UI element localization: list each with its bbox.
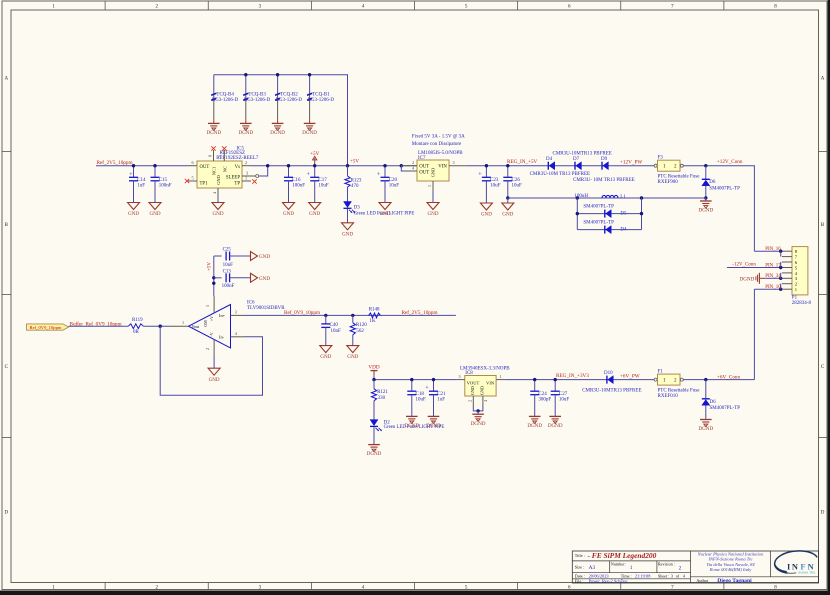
svg-text:C23: C23 (490, 178, 499, 183)
svg-text:GND: GND (128, 211, 139, 217)
svg-text:Vs: Vs (235, 165, 240, 170)
svg-text:SM4007PL-TP: SM4007PL-TP (583, 221, 614, 226)
ferrite bead TCQ-B2 (270, 73, 302, 136)
svg-text:C14: C14 (137, 178, 146, 183)
svg-text:TCQ-B4: TCQ-B4 (216, 93, 234, 98)
svg-text:BG3-1206-D: BG3-1206-D (212, 98, 239, 103)
capacitor C25 (214, 248, 271, 268)
svg-text:D6: D6 (709, 180, 716, 185)
ground GND IC7 (427, 203, 439, 218)
capacitor C16 (283, 164, 306, 217)
svg-text:OUT: OUT (419, 165, 429, 170)
svg-text:D10: D10 (604, 371, 613, 376)
net label Ref_0V9_10ppm out (284, 309, 320, 316)
fuse F1 (654, 370, 700, 400)
svg-text:Revision :: Revision : (658, 562, 675, 567)
svg-text:330: 330 (378, 396, 386, 401)
svg-text:300pF: 300pF (538, 398, 551, 403)
regulator IC7 LM1085IS-5.0 body (417, 151, 463, 181)
svg-text:-V: -V (209, 332, 214, 336)
svg-text:Montare con Dissipatore: Montare con Dissipatore (412, 142, 462, 147)
svg-text:GND: GND (259, 276, 270, 282)
svg-text:DGND: DGND (238, 130, 253, 136)
svg-text:GND: GND (347, 354, 358, 360)
capacitor C17 (307, 164, 329, 217)
svg-text:Diego Tagnani: Diego Tagnani (717, 578, 752, 584)
svg-text:BG3-1206-D: BG3-1206-D (244, 98, 271, 103)
svg-text:1uF: 1uF (437, 398, 445, 403)
svg-text:GND: GND (502, 212, 513, 218)
svg-text:TCQ-B2: TCQ-B2 (280, 93, 298, 98)
ground DGND IC8 (471, 414, 486, 427)
svg-text:DGND: DGND (698, 426, 713, 432)
svg-text:DGND: DGND (548, 423, 563, 429)
pin 3 SLEEP of IC5 (242, 171, 259, 178)
svg-text:GND: GND (431, 168, 436, 178)
svg-text:C20: C20 (389, 178, 398, 183)
svg-text:282834-8: 282834-8 (792, 301, 812, 306)
capacitor C18 (404, 378, 426, 429)
wire feedback loop (160, 326, 262, 395)
svg-text:TCQ-B3: TCQ-B3 (248, 93, 266, 98)
svg-text:PIN_17: PIN_17 (765, 263, 781, 268)
svg-text:3: 3 (453, 160, 455, 165)
svg-text:TCQ-B1: TCQ-B1 (312, 93, 330, 98)
wire D5 branch (576, 198, 644, 230)
wire port to R119 (69, 325, 129, 327)
wire SLEEP to Vs (259, 166, 268, 176)
ferrite bead TCQ-B3 (238, 73, 270, 136)
svg-text:Ref_2V5_10ppm: Ref_2V5_10ppm (97, 159, 133, 166)
svg-text:C25: C25 (223, 248, 232, 253)
LED D2 (370, 401, 444, 445)
net label +12V_PW (620, 160, 642, 166)
svg-text:10uF: 10uF (416, 398, 427, 403)
svg-text:1uF: 1uF (137, 184, 145, 189)
svg-text:5: 5 (205, 305, 210, 307)
svg-text:5: 5 (192, 176, 194, 181)
svg-text:PIN_10: PIN_10 (765, 285, 781, 290)
svg-text:1: 1 (182, 320, 184, 325)
svg-text:A: A (4, 77, 8, 82)
net label PIN_34 (765, 274, 781, 279)
svg-text:+6V_PW: +6V_PW (620, 374, 640, 380)
svg-text:NC1: NC1 (212, 167, 217, 175)
pin 4 OUT2 of IC7 (401, 166, 417, 171)
power port DGND at P1 (740, 273, 781, 284)
svg-text:REG_IN_+5V: REG_IN_+5V (507, 159, 538, 165)
junction DGND 12V (704, 196, 707, 199)
svg-text:470: 470 (351, 184, 359, 189)
svg-text:2: 2 (245, 160, 247, 165)
svg-text:GND: GND (479, 386, 484, 395)
junction L1 left (576, 196, 579, 199)
svg-text:+5V: +5V (350, 160, 359, 165)
svg-text:GND: GND (259, 254, 270, 260)
ferrite bead TCQ-B1 (302, 73, 334, 136)
wire F1 to +6V_Conn (683, 379, 754, 381)
wire PIN_10 (754, 284, 782, 380)
svg-text:100nF: 100nF (222, 284, 235, 289)
svg-text:C13: C13 (223, 270, 232, 275)
svg-text:PIN_16: PIN_16 (765, 247, 781, 252)
capacitor C40 (320, 314, 341, 361)
pin 2 Vs of IC5 (242, 160, 251, 166)
svg-text:GND: GND (216, 175, 221, 185)
diode D10 (604, 371, 613, 384)
INFN logo (775, 551, 817, 575)
svg-text:+5V: +5V (208, 262, 213, 271)
resistor R148 (369, 308, 381, 324)
pin 2 OUT of IC7 (401, 160, 417, 166)
diode D9 value (573, 178, 635, 183)
svg-text:F1: F1 (658, 370, 664, 375)
svg-text:D4: D4 (620, 228, 627, 233)
svg-text:R148: R148 (369, 308, 380, 313)
fuse F3 (654, 156, 700, 186)
svg-text:Fixed 5V 3A - 1.5V @ 3A: Fixed 5V 3A - 1.5V @ 3A (412, 135, 465, 140)
svg-text:C26: C26 (512, 178, 521, 183)
wire +5V rail (251, 165, 417, 167)
net label REG_IN_+5V (507, 159, 538, 165)
capacitor C24 (527, 378, 551, 429)
svg-text:GND: GND (427, 211, 438, 217)
capacitor C26 (502, 164, 522, 218)
resistor R121 (371, 380, 388, 401)
capacitor C15 (149, 164, 172, 217)
svg-text:DGND: DGND (740, 276, 755, 282)
capacitor C14 (128, 164, 147, 217)
svg-text:+: + (129, 172, 133, 178)
junction R123 node (346, 164, 349, 167)
pin 1 VIN of IC8 (496, 374, 505, 380)
svg-text:Vout: Vout (192, 324, 201, 329)
diode D9 (601, 157, 608, 170)
svg-text:Ref_2V5_10ppm: Ref_2V5_10ppm (402, 309, 438, 316)
svg-text:DGND: DGND (367, 451, 382, 457)
svg-text:Title :: Title : (575, 553, 585, 558)
svg-text:INFN-Sezione Roma Tre: INFN-Sezione Roma Tre (707, 557, 752, 562)
regulator IC8 LM3940 body (460, 366, 510, 396)
svg-text:IC8: IC8 (465, 371, 473, 376)
svg-text:GND: GND (149, 211, 160, 217)
svg-text:DGND: DGND (302, 130, 317, 136)
wire SLEEP stub (258, 175, 260, 177)
svg-text:TLV9001SIDBVR: TLV9001SIDBVR (247, 306, 285, 311)
pin 5 TP1 of IC5 (185, 176, 197, 184)
net label +6V_PW (620, 374, 640, 380)
wire DGND bead rail (214, 75, 348, 166)
net label PIN_17 (765, 263, 781, 268)
svg-text:L1: L1 (620, 195, 626, 200)
diode D4 value (530, 172, 590, 177)
svg-text:8: 8 (208, 155, 213, 157)
power port VDD (368, 365, 379, 375)
svg-text:C21: C21 (437, 392, 446, 397)
svg-text:GND: GND (470, 386, 475, 395)
net label +6V_Conn (717, 374, 741, 380)
svg-text:SLEEP: SLEEP (226, 176, 240, 181)
connector P1 282834-8 (782, 247, 812, 307)
svg-text:P1: P1 (792, 296, 798, 301)
svg-text:of: of (676, 574, 680, 579)
wire PIN_34 (779, 273, 782, 280)
svg-text:100uH: 100uH (574, 194, 588, 199)
svg-text:- FE SiPM Legend200: - FE SiPM Legend200 (588, 551, 657, 560)
svg-text:OUT: OUT (419, 170, 429, 175)
svg-text:10uF: 10uF (389, 184, 400, 189)
port Ref_0V9_10ppm (27, 324, 69, 330)
svg-text:VDD: VDD (368, 365, 379, 371)
resistor R120 (347, 314, 367, 361)
svg-text:TP1: TP1 (200, 181, 209, 186)
svg-text:1K: 1K (370, 319, 377, 324)
pin 7 NC of IC5 (219, 146, 227, 161)
svg-text:+: + (425, 386, 429, 392)
svg-text:10nF: 10nF (331, 329, 342, 334)
svg-text:ROMA TRE: ROMA TRE (798, 571, 815, 575)
svg-text:OUT: OUT (200, 165, 210, 170)
svg-text:Sheet :: Sheet : (658, 574, 670, 579)
net label PIN_10 (765, 285, 781, 290)
svg-text:DGND: DGND (404, 423, 419, 429)
svg-text:10uF: 10uF (490, 184, 501, 189)
junction SLEEP/Vs (266, 164, 269, 167)
svg-text:3: 3 (459, 374, 461, 379)
svg-text:R120: R120 (356, 323, 367, 328)
svg-text:CMR3U-10MTR13 PBFREE: CMR3U-10MTR13 PBFREE (582, 389, 641, 394)
svg-text:Nuclear Physics National Insti: Nuclear Physics National Institution (697, 551, 765, 556)
svg-text:10uF: 10uF (559, 398, 570, 403)
svg-text:CMR3U-10M TR13 PBFREE: CMR3U-10M TR13 PBFREE (530, 172, 590, 177)
svg-text:2: 2 (467, 400, 472, 402)
svg-text:C24: C24 (538, 392, 547, 397)
svg-text:Author: Author (696, 578, 708, 583)
svg-text:Size :: Size : (575, 565, 584, 570)
svg-text:10nF: 10nF (223, 263, 234, 268)
svg-text:BG3-1206-D: BG3-1206-D (308, 98, 335, 103)
diode D6 (6V clamp) (702, 380, 740, 419)
pins GND of IC8 (467, 396, 487, 414)
svg-text:D4: D4 (546, 157, 553, 162)
inductor L1 (574, 194, 626, 200)
ground GND D3 (342, 223, 354, 238)
svg-text:DGND: DGND (471, 421, 486, 427)
note fixed 5V (412, 135, 465, 147)
svg-text:10uF: 10uF (318, 184, 329, 189)
net label +5V vertical (208, 262, 213, 271)
svg-text:100nF: 100nF (159, 184, 172, 189)
diode D5 (583, 205, 627, 218)
svg-text:1: 1 (245, 176, 247, 181)
svg-text:A: A (821, 77, 825, 82)
pin 8 NC1 of IC5 (208, 146, 216, 161)
svg-text:21:19:08: 21:19:08 (635, 574, 651, 579)
diode D10 value (582, 389, 641, 394)
svg-text:RXEF010: RXEF010 (658, 394, 679, 399)
svg-text:D5: D5 (620, 212, 627, 217)
svg-text:DGND: DGND (426, 423, 441, 429)
svg-text:SM4007PL-TP: SM4007PL-TP (710, 406, 741, 411)
svg-text:DGND: DGND (527, 423, 542, 429)
svg-text:GND: GND (283, 211, 294, 217)
svg-text:IC7: IC7 (418, 156, 426, 161)
capacitor C20 (377, 164, 399, 217)
svg-text:GND: GND (309, 211, 320, 217)
svg-text:TP: TP (234, 181, 240, 186)
diode D4 (parallel) (583, 221, 627, 234)
svg-text:CMR3U-10MTR13 PBFREE: CMR3U-10MTR13 PBFREE (553, 152, 612, 157)
svg-text:I: I (787, 562, 790, 571)
svg-text:2: 2 (679, 566, 682, 572)
svg-text:D6: D6 (710, 400, 717, 405)
svg-text:OM: OM (203, 320, 208, 327)
diode D4 (546, 157, 555, 170)
wire REG_IN_+5V rail (466, 165, 654, 167)
svg-text:File :: File : (575, 578, 584, 583)
svg-text:NC: NC (222, 166, 227, 172)
svg-text:+12V_PW: +12V_PW (620, 160, 642, 166)
svg-text:D9: D9 (601, 157, 608, 162)
LED D3 (344, 187, 415, 223)
title block (572, 551, 818, 584)
svg-text:Ref_0V9_10ppm: Ref_0V9_10ppm (30, 325, 62, 330)
net label PIN_16 (765, 247, 781, 252)
wire -12V_Conn (727, 262, 783, 269)
svg-text:3: 3 (235, 309, 237, 314)
net label +5V (350, 160, 359, 165)
svg-text:D: D (4, 511, 8, 516)
ground GND IC5 (212, 203, 224, 218)
svg-text:R121: R121 (377, 390, 388, 395)
junction D6 top (704, 164, 707, 167)
diode D7 value (553, 152, 612, 157)
wire PIN_16 (754, 250, 782, 257)
pin 5 +V of IC6 (205, 296, 214, 313)
capacitor C23 (478, 164, 500, 218)
svg-text:10uF: 10uF (512, 184, 523, 189)
svg-text:PTC Resettable Fuse: PTC Resettable Fuse (658, 175, 701, 180)
ground GND IC6 (208, 368, 220, 383)
svg-text:Power_Rev-2.SchDoc: Power_Rev-2.SchDoc (589, 578, 628, 583)
capacitor C21 (425, 378, 446, 429)
svg-text:R123: R123 (351, 178, 362, 183)
svg-text:1: 1 (427, 185, 432, 187)
svg-text:+12V_Conn: +12V_Conn (717, 159, 743, 165)
pin 4 In- of IC6 (231, 331, 246, 337)
svg-text:2: 2 (205, 348, 210, 350)
ground DGND 12V clamp (698, 198, 713, 214)
svg-text:DGND: DGND (698, 208, 713, 214)
net label +12V_Conn (717, 159, 743, 165)
svg-text:0R: 0R (133, 330, 140, 335)
svg-text:DGND: DGND (270, 130, 285, 136)
svg-text:VOUT: VOUT (467, 381, 480, 386)
junction L1 right (640, 196, 643, 199)
svg-text:1: 1 (500, 374, 502, 379)
pin 1 Vout of IC6 (170, 320, 189, 326)
svg-text:SM4007PL-TP: SM4007PL-TP (583, 205, 614, 210)
svg-text:CMR3U- 10M TR13 PBFREE: CMR3U- 10M TR13 PBFREE (573, 178, 635, 183)
svg-text:+5V: +5V (310, 151, 320, 157)
junction IC7 OUT (400, 164, 403, 167)
svg-text:100nF: 100nF (292, 184, 305, 189)
pin 6 OUT of IC5 (188, 160, 197, 166)
diode D6 (12V clamp) (702, 166, 740, 198)
svg-text:6: 6 (192, 160, 194, 165)
op-amp IC6 TLV9001SIDBVR (189, 300, 286, 348)
svg-text:2: 2 (412, 160, 414, 165)
svg-text:Ref_0V9_10ppm: Ref_0V9_10ppm (284, 309, 320, 316)
wire REG_IN_+3V3 rail (505, 379, 654, 381)
ground DGND 6V clamp (698, 420, 713, 433)
svg-text:GND: GND (320, 354, 331, 360)
svg-text:Rome 00146(RM) Italy: Rome 00146(RM) Italy (709, 567, 752, 572)
svg-text:REG_IN_+3V3: REG_IN_+3V3 (556, 373, 589, 379)
svg-text:RXEF900: RXEF900 (658, 180, 679, 185)
svg-text:R119: R119 (132, 318, 143, 323)
pin 2 -V of IC6 (205, 339, 214, 356)
svg-text:IC6: IC6 (247, 300, 255, 305)
wire Ref_0V9_10ppm out (245, 314, 456, 316)
svg-text:GND: GND (212, 211, 223, 217)
svg-text:DGND: DGND (206, 130, 221, 136)
wire IC7 GND (432, 191, 434, 203)
pin 3 In+ of IC6 (231, 309, 246, 315)
svg-text:D7: D7 (573, 157, 580, 162)
svg-text:D3: D3 (354, 205, 361, 210)
svg-text:GND: GND (481, 212, 492, 218)
net label REG_IN_+3V3 (556, 373, 589, 379)
junction D6 bottom (704, 378, 707, 381)
svg-text:7: 7 (219, 155, 224, 157)
pin 4 GND of IC5 (212, 188, 218, 198)
svg-text:VIN: VIN (438, 165, 447, 170)
svg-text:C16: C16 (292, 178, 301, 183)
svg-text:GND: GND (379, 211, 390, 217)
svg-text:In-: In- (219, 335, 225, 340)
svg-text:D: D (821, 511, 825, 516)
capacitor C27 (548, 378, 570, 429)
junction opamp supply (212, 282, 215, 285)
wire F3 to +12V_Conn (683, 166, 754, 252)
svg-text:N: N (792, 562, 798, 571)
pin 3 VIN of IC7 (449, 160, 466, 166)
pin 1 TP of IC5 (242, 176, 257, 184)
ferrite bead TCQ-B4 (206, 75, 238, 136)
svg-text:VIN: VIN (486, 381, 495, 386)
resistor R119 (128, 318, 143, 335)
svg-text:C40: C40 (330, 323, 339, 328)
wire IC6 -V to GND (213, 356, 215, 368)
svg-text:C15: C15 (159, 178, 168, 183)
svg-text:-12V_Conn: -12V_Conn (732, 263, 756, 268)
net label -12V_Conn (732, 263, 756, 268)
svg-text:BG3-1206-D: BG3-1206-D (276, 98, 303, 103)
svg-text:PTC Resettable Fuse: PTC Resettable Fuse (658, 388, 701, 393)
power port +5V (310, 151, 320, 166)
svg-text:+6V_Conn: +6V_Conn (717, 374, 741, 380)
svg-text:+: + (377, 172, 381, 178)
svg-text:PIN_34: PIN_34 (765, 274, 781, 279)
svg-text:F3: F3 (658, 156, 664, 161)
pin 1 GND of IC7 (427, 181, 433, 191)
svg-text:GND: GND (342, 231, 353, 237)
resistor R123 (345, 166, 362, 190)
net label Ref_2V5_10ppm out (402, 309, 438, 316)
svg-text:1: 1 (630, 565, 633, 571)
svg-text:562: 562 (356, 329, 364, 334)
